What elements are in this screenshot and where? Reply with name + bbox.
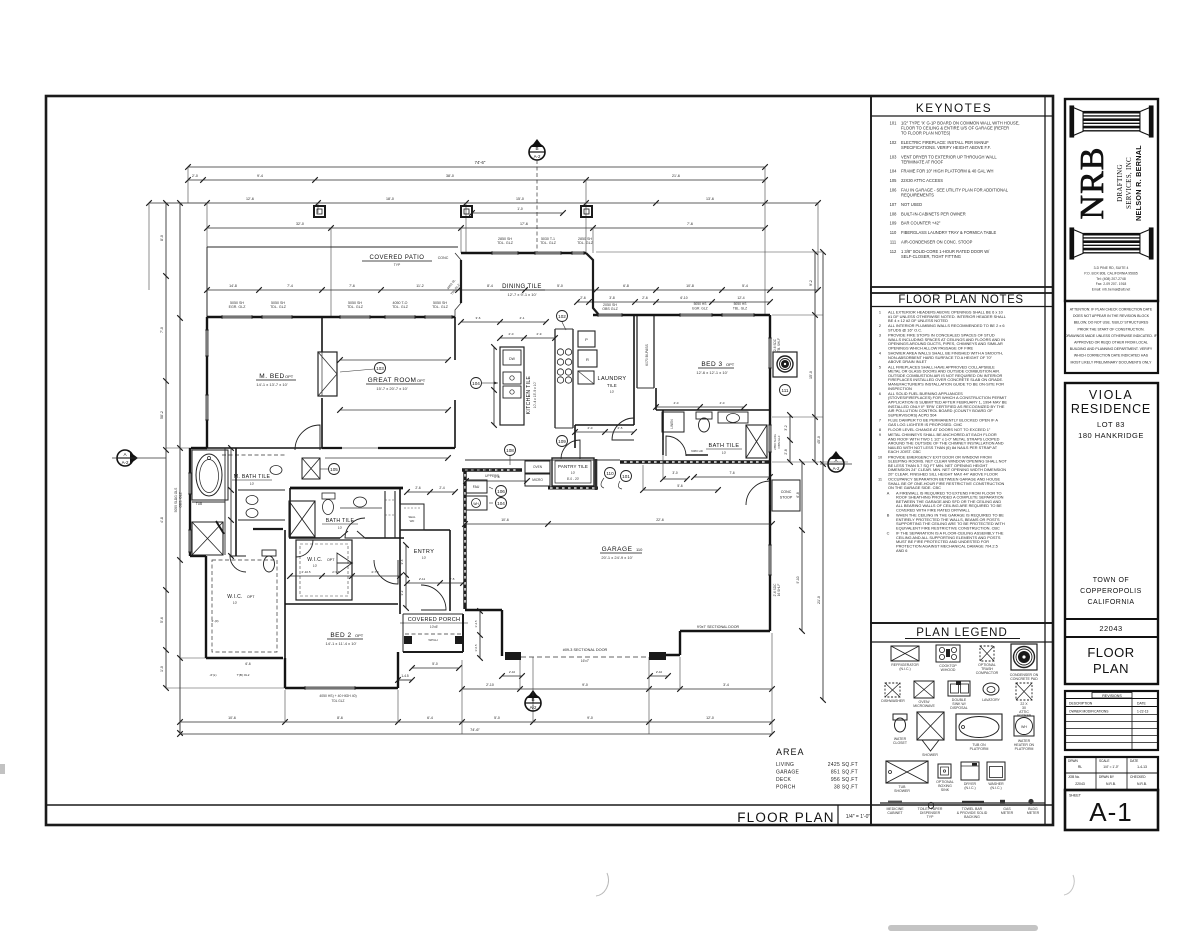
- svg-text:NRB: NRB: [1074, 147, 1111, 220]
- master tub: [192, 450, 228, 500]
- svg-text:14'-8: 14'-8: [229, 284, 237, 288]
- porch post right: [455, 636, 463, 644]
- svg-text:3'-8: 3'-8: [609, 296, 615, 300]
- svg-text:SHOWER: SHOWER: [922, 753, 938, 757]
- svg-text:OBS. GLZ: OBS. GLZ: [179, 492, 183, 507]
- svg-text:WD: WD: [410, 519, 415, 523]
- svg-text:BELOW, DO NOT USE. 'BUILD' STR: BELOW, DO NOT USE. 'BUILD' STRUCTURES: [1074, 321, 1149, 325]
- svg-text:PLAN: PLAN: [1093, 661, 1129, 676]
- pantry bottom hatched wall: [548, 487, 598, 490]
- svg-text:7'-6: 7'-6: [349, 284, 355, 288]
- svg-text:REQUIREMENTS: REQUIREMENTS: [901, 193, 934, 198]
- svg-text:KEYNOTES: KEYNOTES: [916, 101, 992, 115]
- extension lines bottom: [461, 660, 463, 734]
- interior wall: hall bearing wall (dark): [290, 487, 403, 490]
- svg-text:MICRO: MICRO: [532, 478, 543, 482]
- svg-text:8'-0 - 20': 8'-0 - 20': [567, 477, 580, 481]
- svg-text:3'-2: 3'-2: [400, 590, 404, 595]
- svg-text:A-2: A-2: [833, 466, 840, 471]
- svg-text:TO FLOOR PLAN NOTES): TO FLOOR PLAN NOTES): [901, 131, 951, 136]
- door arc: laundry: [612, 418, 634, 440]
- svg-text:11: 11: [878, 477, 882, 482]
- svg-text:OPT: OPT: [355, 633, 364, 638]
- interior wall: entry left / bed2 right: [399, 488, 401, 614]
- svg-text:N.R.B.: N.R.B.: [1106, 782, 1116, 786]
- garage side door arc: [746, 481, 770, 505]
- top dimension line row 3: [149, 202, 818, 204]
- svg-text:22'-6: 22'-6: [656, 518, 664, 522]
- svg-text:NELSON R. BERNAL: NELSON R. BERNAL: [1134, 145, 1143, 221]
- svg-text:108: 108: [506, 448, 514, 453]
- garage door sill (dashed): [521, 656, 649, 658]
- svg-text:3'-4: 3'-4: [723, 683, 729, 687]
- svg-text:A-1: A-1: [1089, 797, 1132, 827]
- svg-text:2'-11: 2'-11: [419, 577, 426, 581]
- svg-text:PORCH: PORCH: [776, 785, 796, 791]
- svg-text:TDL. GLZ: TDL. GLZ: [577, 241, 594, 245]
- exterior wall: bed2 bottom: [285, 687, 398, 689]
- kitchen/garage wall hatched left part: [462, 468, 522, 471]
- svg-text:TDL. GLZ: TDL. GLZ: [347, 305, 364, 309]
- svg-text:1/4" = 1'-0": 1/4" = 1'-0": [1103, 765, 1119, 769]
- svg-text:P.O. BOX 808, CALIFORNIA 95665: P.O. BOX 808, CALIFORNIA 95665: [1084, 271, 1138, 275]
- svg-text:2'-10: 2'-10: [509, 670, 516, 674]
- svg-text:109: 109: [558, 439, 566, 444]
- bottom dimension line mid: [180, 721, 772, 723]
- svg-text:R: R: [586, 357, 589, 362]
- svg-text:OWNER MODIFICATIONS: OWNER MODIFICATIONS: [1069, 710, 1109, 714]
- svg-text:BATH TILE: BATH TILE: [709, 443, 740, 449]
- post dimension marks: [472, 212, 563, 214]
- patio post 2: [461, 206, 472, 217]
- exterior wall: wic/bed2 left: [205, 556, 207, 658]
- svg-text:TYP: TYP: [927, 815, 934, 819]
- svg-text:N.R.B.: N.R.B.: [1137, 782, 1147, 786]
- entry wall: [400, 529, 450, 531]
- svg-text:2'-10: 2'-10: [486, 683, 494, 687]
- garage interior dim texts: [465, 523, 772, 525]
- svg-text:ENTRY: ENTRY: [414, 549, 435, 555]
- svg-text:20'-1 x 24'-9 x 10': 20'-1 x 24'-9 x 10': [601, 555, 632, 560]
- svg-text:(N.I.C.): (N.I.C.): [990, 786, 1001, 790]
- svg-text:112: 112: [890, 249, 897, 254]
- svg-text:WHICH CORRECTION DATE INDICATE: WHICH CORRECTION DATE INDICATED HAS: [1074, 354, 1149, 358]
- top dimension line row 2: [188, 179, 765, 181]
- interior wall: mbed bottom: [207, 447, 322, 449]
- legend: water closet symbol: [893, 714, 907, 720]
- svg-text:3'-0: 3'-0: [672, 471, 677, 475]
- dimension line above walls: [207, 289, 818, 291]
- svg-text:TDL. GLZ: TDL. GLZ: [497, 241, 514, 245]
- svg-text:9'-10: 9'-10: [796, 576, 800, 583]
- svg-text:6'-8: 6'-8: [796, 492, 800, 497]
- svg-text:1/4" = 1'-0": 1/4" = 1'-0": [846, 814, 871, 820]
- svg-text:21'-0: 21'-0: [817, 596, 821, 604]
- wic upper bifold doors: [337, 553, 352, 563]
- window break marks left wing wall: [222, 316, 252, 319]
- svg-text:107: 107: [890, 202, 898, 207]
- svg-text:1'-0: 1'-0: [160, 666, 164, 672]
- garage door jamb right: [649, 652, 666, 660]
- legend: dishwasher symbol: [885, 683, 900, 697]
- svg-text:10'-4 x 15'-9 x 10': 10'-4 x 15'-9 x 10': [533, 381, 537, 408]
- bath2 interior dim: [656, 406, 744, 408]
- svg-text:108: 108: [890, 211, 898, 216]
- svg-text:P: P: [585, 337, 588, 342]
- patio post 1: [314, 206, 325, 217]
- svg-text:4'-0: 4'-0: [720, 401, 725, 405]
- bath2 shower: [746, 425, 767, 458]
- svg-text:15'-0: 15'-0: [516, 197, 524, 201]
- right dimension line outer: [822, 252, 824, 700]
- mbath toilet room fixture: [270, 466, 282, 475]
- svg-text:TDL. GLZ: TDL. GLZ: [392, 305, 409, 309]
- svg-text:TBL. GLZ: TBL. GLZ: [733, 307, 747, 311]
- svg-text:10': 10': [610, 390, 615, 394]
- svg-text:4050 HS) + 40 HIGH 40): 4050 HS) + 40 HIGH 40): [319, 694, 356, 698]
- svg-text:COPPEROPOLIS: COPPEROPOLIS: [1080, 588, 1142, 595]
- svg-text:B: B: [887, 513, 890, 518]
- air condenser pad: [773, 352, 797, 377]
- svg-text:9'-4: 9'-4: [257, 174, 263, 178]
- svg-text:5'-6: 5'-6: [160, 617, 164, 623]
- garage right small dims: [789, 415, 791, 462]
- svg-text:Tel: (408) 207-2748: Tel: (408) 207-2748: [1096, 277, 1126, 281]
- keynote leader curls: [601, 478, 604, 488]
- great room/kitchen divider wall: [454, 317, 456, 360]
- tub/shower divider: [192, 501, 225, 503]
- patio post 3: [581, 206, 592, 217]
- svg-text:851 SQ.FT: 851 SQ.FT: [831, 770, 858, 776]
- section marker A/A-2 right: [828, 456, 844, 472]
- svg-text:106: 106: [497, 489, 505, 494]
- svg-text:74'-6": 74'-6": [475, 160, 486, 165]
- svg-text:M. BATH TILE: M. BATH TILE: [234, 474, 271, 480]
- svg-text:11'-2: 11'-2: [416, 284, 423, 288]
- title block: top column icon: [1070, 106, 1153, 137]
- svg-text:5'-0: 5'-0: [494, 716, 500, 720]
- svg-text:2'-4: 2'-4: [439, 486, 444, 490]
- svg-text:2'-6: 2'-6: [642, 296, 648, 300]
- svg-text:1-22-13: 1-22-13: [1137, 710, 1149, 714]
- pantry: [552, 458, 594, 486]
- dining dim small: [461, 321, 546, 323]
- svg-text:FLOOR PLAN NOTES: FLOOR PLAN NOTES: [898, 294, 1023, 306]
- svg-text:18'-0: 18'-0: [386, 197, 394, 201]
- svg-text:2'-6: 2'-6: [415, 486, 420, 490]
- svg-text:JOB No.: JOB No.: [1068, 775, 1080, 779]
- conc stoop: [772, 480, 800, 511]
- svg-text:ATTENTION: IF PLAN CHECK CORRE: ATTENTION: IF PLAN CHECK CORRECTION DATE: [1070, 308, 1153, 312]
- legend: optional trash compactor symbol: [980, 646, 994, 661]
- keynote 109 circle: [557, 436, 568, 447]
- svg-text:12'-6 x 12'-1 x 10': 12'-6 x 12'-1 x 10': [696, 370, 727, 375]
- svg-text:3'-6: 3'-6: [400, 559, 404, 564]
- svg-text:FIBERGLASS LAUNDRY TRAY & FORM: FIBERGLASS LAUNDRY TRAY & FORMICA TABLE: [901, 230, 997, 235]
- porch post left: [404, 636, 412, 644]
- bottom dimension line garage: [462, 688, 772, 690]
- legend: condenser on concrete pad symbol: [1011, 644, 1037, 670]
- svg-text:7'(B) OL2: 7'(B) OL2: [237, 673, 250, 677]
- svg-text:GREAT ROOM: GREAT ROOM: [368, 377, 417, 384]
- refrigerator box R: [578, 350, 597, 367]
- svg-text:TOWN OF: TOWN OF: [1093, 577, 1129, 584]
- svg-text:DW: DW: [509, 357, 515, 361]
- legend: attic access symbol: [1016, 683, 1032, 700]
- cooktop burners: [557, 349, 563, 355]
- door arc: mbath: [230, 556, 246, 572]
- svg-text:22043: 22043: [1099, 624, 1122, 633]
- svg-text:14'-1 x 11'-4 x 10': 14'-1 x 11'-4 x 10': [326, 641, 357, 646]
- legend: refrigerator symbol: [891, 646, 919, 661]
- svg-text:2'-10.5: 2'-10.5: [301, 570, 310, 574]
- svg-text:#09-3 SECTIONAL DOOR: #09-3 SECTIONAL DOOR: [563, 648, 608, 652]
- svg-text:FLOOR: FLOOR: [1087, 645, 1134, 660]
- svg-text:AND 6: AND 6: [896, 548, 907, 553]
- svg-text:1'-0: 1'-0: [517, 207, 523, 211]
- svg-text:104: 104: [890, 169, 898, 174]
- svg-text:SINK: SINK: [941, 788, 950, 792]
- svg-text:OVEN: OVEN: [533, 465, 543, 469]
- svg-text:4'-8: 4'-8: [160, 517, 164, 523]
- porch dims: [412, 667, 459, 669]
- svg-text:10'-6: 10'-6: [501, 518, 509, 522]
- svg-text:102: 102: [890, 140, 898, 145]
- svg-text:15'-7 x 20'-7 x 10': 15'-7 x 20'-7 x 10': [376, 386, 407, 391]
- svg-text:10'-8: 10'-8: [686, 284, 694, 288]
- door arc: bath2: [666, 436, 686, 456]
- mbath toilet: [262, 550, 276, 556]
- keynotes list text: [890, 121, 1020, 259]
- svg-text:6'-6: 6'-6: [245, 662, 250, 666]
- window break marks left wall: [206, 330, 209, 356]
- mbed closet dashed shelf: [222, 454, 286, 456]
- svg-text:4'-1: 4'-1: [520, 316, 525, 320]
- svg-text:CONC: CONC: [438, 256, 449, 260]
- keynote 104 circle: [471, 378, 482, 389]
- svg-text:TDL. GLZ: TDL. GLZ: [540, 241, 557, 245]
- svg-text:DISHWASHER: DISHWASHER: [881, 699, 905, 703]
- svg-text:1-4-13: 1-4-13: [1137, 765, 1147, 769]
- svg-text:A: A: [887, 490, 890, 495]
- left dimension line outer: [165, 203, 167, 688]
- svg-text:CONC: CONC: [781, 490, 792, 494]
- svg-text:AREA: AREA: [776, 747, 805, 757]
- svg-text:104: 104: [472, 381, 480, 386]
- svg-text:W.I.C.: W.I.C.: [307, 557, 322, 563]
- svg-text:2: 2: [879, 323, 881, 328]
- window break marks right wall: [769, 338, 772, 368]
- svg-text:WH: WH: [1021, 725, 1027, 729]
- svg-text:105: 105: [330, 467, 338, 472]
- legend: double sink w/disposal symbol: [948, 681, 970, 696]
- svg-text:OPT: OPT: [247, 595, 255, 599]
- svg-text:EGR. GLZ: EGR. GLZ: [229, 305, 247, 309]
- bath2 top wall: [656, 409, 770, 411]
- svg-text:7: 7: [879, 418, 881, 423]
- legend: oven/microwave symbol: [914, 681, 934, 698]
- svg-text:6080 HD: 6080 HD: [691, 449, 704, 453]
- svg-text:BUILT-IN-CABINETS PER OWNER: BUILT-IN-CABINETS PER OWNER: [901, 211, 966, 216]
- svg-text:6'-4: 6'-4: [427, 716, 433, 720]
- svg-text:A-2: A-2: [122, 460, 129, 465]
- laundry tray box: [578, 371, 594, 384]
- svg-text:TDL. GLZ: TDL. GLZ: [432, 305, 449, 309]
- svg-text:104: 104: [497, 501, 505, 506]
- svg-text:2'-5: 2'-5: [618, 426, 623, 430]
- svg-text:6'-10: 6'-10: [680, 296, 687, 300]
- top dimension line 74'-6: [188, 166, 765, 168]
- svg-text:4'-7.5: 4'-7.5: [371, 570, 379, 574]
- svg-text:LIVING: LIVING: [776, 762, 794, 768]
- svg-text:2'-0: 2'-0: [509, 332, 514, 336]
- svg-text:LOT 83: LOT 83: [1097, 420, 1125, 429]
- legend: optional boxing sink symbol: [938, 764, 951, 778]
- svg-text:DATE: DATE: [1137, 702, 1147, 706]
- great room ceiling lines: [340, 359, 448, 361]
- svg-text:TDL. GLZ: TDL. GLZ: [270, 305, 287, 309]
- svg-text:5050 HS: 5050 HS: [694, 302, 708, 306]
- svg-text:1'-4.5: 1'-4.5: [474, 620, 478, 628]
- garage door jamb left: [505, 652, 521, 660]
- svg-text:10'-6: 10'-6: [228, 716, 236, 720]
- svg-text:DRAWINGS MADE UNLESS OTHERWISE: DRAWINGS MADE UNLESS OTHERWISE INDICATED…: [1065, 334, 1157, 338]
- kitchen island: [500, 347, 524, 425]
- svg-text:38 SQ.FT: 38 SQ.FT: [834, 785, 858, 791]
- svg-text:DINING TILE: DINING TILE: [502, 284, 542, 290]
- title block: disclaimer paragraph box: [1065, 301, 1158, 373]
- svg-text:DESCRIPTION: DESCRIPTION: [1069, 702, 1093, 706]
- svg-text:OPT: OPT: [726, 362, 735, 367]
- svg-text:Email: nrb.bernal@att.net: Email: nrb.bernal@att.net: [1092, 288, 1131, 292]
- floor plan notes panel frame: [871, 287, 1053, 623]
- svg-text:APPROVED OR REQD OTHER FROM LO: APPROVED OR REQD OTHER FROM LOCAL: [1074, 341, 1148, 345]
- svg-text:101: 101: [890, 121, 898, 126]
- svg-text:110: 110: [606, 471, 614, 476]
- svg-text:6: 6: [879, 391, 881, 396]
- legend: cooktop w/hood symbol: [936, 645, 960, 662]
- svg-text:32'-0: 32'-0: [296, 222, 304, 226]
- svg-text:LINEN: LINEN: [670, 419, 674, 429]
- svg-text:10': 10': [422, 556, 427, 560]
- svg-text:COMPACTOR: COMPACTOR: [976, 671, 999, 675]
- title block: revisions table frame: [1065, 691, 1158, 750]
- svg-text:RL: RL: [1078, 765, 1082, 769]
- svg-text:7'-0: 7'-0: [160, 327, 164, 333]
- svg-text:17'-6: 17'-6: [520, 222, 528, 226]
- svg-text:DECK: DECK: [776, 777, 791, 783]
- exterior wall: left wing top: [207, 316, 455, 318]
- svg-text:2'-0: 2'-0: [588, 426, 593, 430]
- keynotes column inner right border: [1044, 96, 1046, 825]
- svg-text:METER: METER: [1001, 811, 1014, 815]
- wic lower dashed shelf: [212, 560, 277, 652]
- svg-text:MICROWAVE: MICROWAVE: [913, 704, 935, 708]
- svg-text:DRAFTING: DRAFTING: [1116, 164, 1124, 202]
- keynote 106 circle: [496, 486, 507, 497]
- fireplace: [318, 352, 337, 396]
- hall interior dims: [407, 491, 455, 493]
- svg-text:110: 110: [636, 547, 643, 552]
- svg-text:LAVATORY: LAVATORY: [982, 698, 1000, 702]
- title block: job number cell: [1065, 618, 1158, 620]
- svg-text:CALIFORNIA: CALIFORNIA: [1087, 599, 1134, 606]
- svg-text:1'-6.5: 1'-6.5: [474, 644, 478, 652]
- svg-text:VIOLA: VIOLA: [1089, 388, 1133, 402]
- svg-text:7'-4: 7'-4: [287, 284, 293, 288]
- entry front door arc: [421, 585, 446, 610]
- svg-text:3'-6: 3'-6: [476, 316, 481, 320]
- svg-text:CONCRETE PAD: CONCRETE PAD: [1010, 677, 1038, 681]
- svg-text:5'-6: 5'-6: [677, 484, 682, 488]
- interior wall: bed2 top: [285, 603, 398, 605]
- svg-text:2'-8: 2'-8: [784, 449, 788, 454]
- laundry dim small: [575, 431, 634, 433]
- extension lines sides: [596, 251, 823, 253]
- mbath lav counter: [246, 496, 258, 505]
- legend: lavatory symbol: [983, 683, 999, 695]
- extension lines top: [187, 167, 189, 203]
- svg-text:EGR. GLZ: EGR. GLZ: [692, 307, 707, 311]
- scan artifact left edge mark: [0, 764, 5, 774]
- svg-text:TILE: TILE: [607, 383, 617, 388]
- legend: tub shower symbol: [886, 761, 928, 783]
- fau closet: [466, 480, 487, 493]
- svg-text:8'-4: 8'-4: [487, 284, 493, 288]
- svg-text:SCALE: SCALE: [1099, 759, 1109, 763]
- svg-text:7'-6: 7'-6: [687, 222, 693, 226]
- svg-text:TUB: TUB: [196, 502, 202, 506]
- legend: wall accessories line: [880, 802, 1045, 804]
- title block: drawn/scale/date table: [1065, 757, 1158, 790]
- svg-text:74'-6": 74'-6": [470, 728, 480, 732]
- svg-text:2'-0: 2'-0: [192, 174, 198, 178]
- svg-text:8'-6: 8'-6: [337, 716, 343, 720]
- window break bed2 bottom wall: [305, 687, 355, 690]
- svg-text:SHOWER: SHOWER: [894, 789, 910, 793]
- scan artifact arc 1: [596, 873, 608, 896]
- kitchen counter wall: [554, 329, 556, 428]
- svg-text:REVISIONS: REVISIONS: [1102, 694, 1122, 698]
- svg-text:9: 9: [879, 432, 881, 437]
- svg-text:OBS GLZ: OBS GLZ: [602, 307, 618, 311]
- svg-text:6'-8: 6'-8: [623, 284, 629, 288]
- bath hall shower: [289, 501, 315, 537]
- interior wall: mbath right: [235, 448, 237, 556]
- svg-text:BUILDING AND PLANNING DEPARTME: BUILDING AND PLANNING DEPARTMENT. VERIFY: [1070, 347, 1153, 351]
- svg-text:FAU: FAU: [473, 485, 480, 489]
- door arc: bath hall: [345, 518, 365, 538]
- keynotes panel frame: [871, 96, 1053, 293]
- floor plan notes list text: [878, 310, 1008, 553]
- hall-garage door arc: [561, 440, 580, 459]
- legend: tub on platform symbol: [956, 714, 1002, 740]
- exterior wall: dining nook: [455, 253, 461, 317]
- top dimension line row 4: [207, 227, 765, 229]
- svg-text:Fax: 2-09 207- 1918: Fax: 2-09 207- 1918: [1096, 282, 1127, 286]
- svg-text:OPT: OPT: [417, 378, 426, 383]
- svg-text:WPGH: WPGH: [428, 638, 437, 642]
- svg-text:4'-0: 4'-0: [674, 401, 679, 405]
- legend: water heater on platform symbol: [1014, 716, 1034, 736]
- svg-text:BAR COUNTER +42": BAR COUNTER +42": [901, 221, 941, 226]
- svg-text:SPECIFICATIONS. VERIFY HEIGHT: SPECIFICATIONS. VERIFY HEIGHT ABOVE F.F.: [901, 145, 991, 150]
- entry vertical dim: [405, 545, 407, 608]
- scan artifact bottom smudge: [888, 925, 1038, 931]
- svg-text:6070 BI-PASS: 6070 BI-PASS: [645, 343, 649, 365]
- door arc: wic upper: [296, 540, 313, 557]
- svg-text:SERVICES, INC: SERVICES, INC: [1125, 157, 1133, 209]
